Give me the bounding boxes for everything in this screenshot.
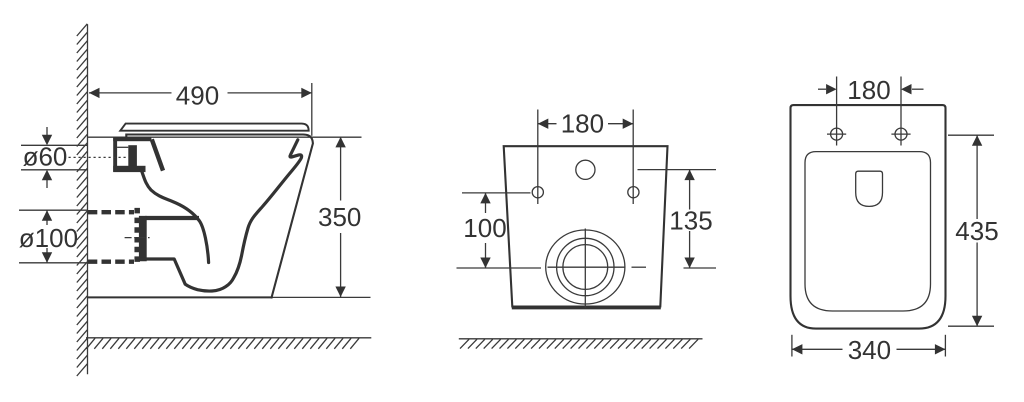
ø100 pipe dashed vertical flange — [134, 208, 140, 266]
front dimension 180 line — [538, 123, 557, 125]
bottom extension line — [88, 296, 371, 298]
flush inlet spigot left bar — [113, 137, 117, 171]
ø100 pipe dashed top line — [88, 210, 134, 214]
trap left bar — [139, 216, 147, 261]
dimension ø60 bottom arrow — [46, 179, 48, 188]
svg-text:100: 100 — [463, 213, 506, 243]
front body outline — [504, 146, 668, 306]
dimension 340 right arrow — [935, 344, 946, 354]
pipe dash-dot centerline — [125, 237, 152, 239]
inner bowl outline — [856, 171, 883, 206]
dimension 435 extension lines — [948, 134, 994, 136]
right mounting hole — [628, 187, 639, 198]
dimension 490 extension line — [311, 83, 313, 136]
top dimension 180 left arrow — [818, 88, 826, 90]
dimension ø100 bottom arrow — [46, 248, 48, 263]
svg-text:340: 340 — [848, 335, 891, 365]
front dimension 135 line and arrows — [689, 170, 691, 210]
wall hatching — [77, 24, 88, 376]
wall line — [87, 24, 89, 374]
svg-text:135: 135 — [669, 205, 712, 235]
center hole — [576, 160, 595, 179]
drain inner circle — [563, 245, 608, 290]
drain centerline dash right — [632, 266, 647, 268]
dimension 350 line — [340, 137, 342, 201]
bowl inner back sweep curve — [141, 169, 209, 262]
trap bottom arm, outlet, bowl bottom and front inner wall with rim hook — [140, 140, 302, 291]
dimension 350 top arrow — [335, 137, 345, 148]
toilet bottom edge — [88, 296, 272, 298]
dimension 340 extension lines — [791, 335, 793, 357]
front floor line — [459, 338, 703, 340]
right bolt hole — [895, 128, 907, 140]
drain vertical centerline — [584, 229, 586, 309]
spigot dotted centerline — [69, 156, 129, 158]
spigot inner square top line — [117, 146, 128, 148]
front dimension 180 extension lines — [537, 110, 539, 205]
top dimension 180 extension lines — [836, 77, 838, 146]
top dimension 180 right arrow — [912, 88, 924, 90]
front dimension 100 line and arrows — [485, 193, 487, 213]
svg-text:180: 180 — [561, 109, 604, 139]
svg-text:435: 435 — [955, 216, 998, 246]
flush inlet spigot top bar — [113, 137, 151, 141]
dimension 435 line and arrows — [976, 135, 978, 219]
front dimension 135 extension lines — [638, 169, 717, 171]
floor line side view — [86, 337, 371, 339]
flush inlet spigot bottom bar — [113, 166, 145, 172]
floor hatching side view — [86, 338, 359, 349]
dimension ø100 extension lines — [19, 209, 87, 211]
front body bottom thick edge — [512, 306, 661, 309]
dimension 350 bottom arrow — [335, 287, 345, 298]
front dimension 180 left arrow — [538, 119, 549, 129]
drain middle circle — [557, 238, 614, 295]
lid — [120, 124, 308, 131]
trap top arm — [145, 216, 199, 220]
spigot diagonal bar — [152, 139, 163, 170]
svg-text:490: 490 — [176, 80, 219, 110]
left mounting hole — [532, 187, 543, 198]
drain horizontal centerline — [548, 266, 625, 268]
svg-text:ø100: ø100 — [19, 223, 78, 253]
top view body outline — [791, 105, 946, 329]
dimension 340 left arrow — [792, 344, 803, 354]
dimension 490 left arrow — [89, 88, 100, 98]
dimension ø100 top arrow — [46, 210, 48, 225]
svg-text:ø60: ø60 — [23, 141, 68, 171]
flush inlet spigot inner bar — [128, 145, 137, 171]
dimension 490 line — [89, 92, 172, 94]
dimension ø60 extension lines — [21, 144, 87, 146]
front floor hatching — [460, 339, 698, 348]
left bolt hole — [831, 128, 843, 140]
svg-text:350: 350 — [318, 202, 361, 232]
dimension 490 right arrow — [301, 88, 312, 98]
rim top extension line — [88, 136, 362, 138]
ø100 pipe dashed bottom line — [88, 260, 134, 264]
front dimension 180 right arrow — [623, 119, 634, 129]
svg-text:180: 180 — [847, 75, 890, 105]
seat and front outer edge — [126, 135, 313, 299]
dimension ø60 top arrow — [46, 127, 48, 136]
seat ring inner outline — [805, 152, 931, 311]
drain outer ellipse — [546, 230, 625, 304]
front dimension 100 extension lines — [462, 192, 531, 194]
dimension 340 line — [792, 348, 843, 350]
